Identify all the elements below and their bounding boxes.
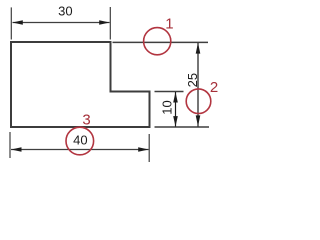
balloon circle 2 — [186, 89, 211, 114]
balloon circle 1 — [144, 28, 171, 55]
dim40 extension line left — [9, 132, 11, 158]
svg-text:40: 40 — [73, 133, 87, 148]
svg-text:10: 10 — [159, 100, 174, 114]
svg-text:30: 30 — [58, 4, 72, 19]
dim10 arrow up — [173, 92, 178, 103]
dim25 arrow up — [196, 43, 201, 54]
dim30 extension line left — [10, 7, 12, 39]
dim25 bottom extension line — [155, 126, 210, 128]
svg-text:25: 25 — [185, 73, 200, 87]
dim30 dimension line — [13, 22, 110, 24]
dim30 arrow right — [99, 20, 110, 25]
svg-text:2: 2 — [210, 79, 218, 96]
dim10 arrow down — [173, 116, 178, 127]
dim30 extension line right — [109, 7, 111, 40]
dim40 arrow right — [138, 147, 149, 152]
dim40 dimension line — [11, 149, 149, 151]
dim40 arrow left — [11, 147, 22, 152]
part outline (step block) — [11, 42, 150, 127]
dim30 arrow left — [12, 20, 22, 25]
svg-text:3: 3 — [82, 112, 90, 129]
dim10 top extension line — [155, 91, 184, 93]
balloon circle 3 — [66, 127, 94, 155]
dim25 top extension line — [113, 41, 209, 43]
dim25 arrow down — [196, 115, 201, 126]
dim25 dimension line — [197, 43, 199, 127]
svg-text:1: 1 — [165, 15, 173, 32]
dim10 dimension line — [175, 92, 177, 127]
dim40 extension line right — [148, 134, 150, 162]
